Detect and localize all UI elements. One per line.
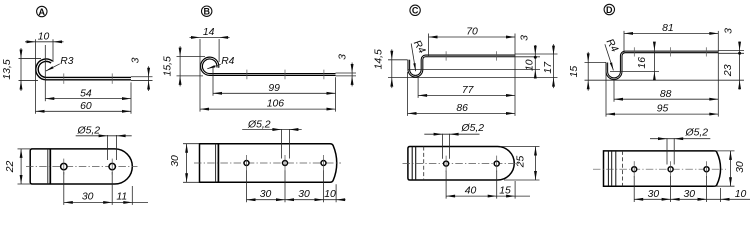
- svg-text:77: 77: [462, 85, 475, 96]
- dimension 106 (B): [200, 108, 336, 110]
- hole C2: [494, 161, 499, 166]
- svg-text:Ø5,2: Ø5,2: [461, 123, 485, 134]
- extension lines B bottom view dims: [246, 171, 248, 203]
- dimension Ø5,2 (C): [424, 133, 479, 135]
- dimension 88 (D): [614, 98, 718, 100]
- hole B3: [321, 161, 326, 166]
- dimension 14 (B hook width): [190, 36, 230, 38]
- svg-text:99: 99: [268, 83, 280, 94]
- part D centerline: [593, 168, 726, 170]
- part C bottom view - plate with rounded right end: [408, 147, 514, 181]
- radius label R3 with leader: [46, 64, 60, 71]
- svg-text:86: 86: [456, 103, 468, 114]
- dimension 30 (D width): [730, 151, 732, 186]
- part A centerline: [26, 166, 138, 168]
- dimension 11 (A bottom): [123, 201, 132, 204]
- extension lines C bottom view dims: [445, 171, 447, 199]
- variant label A (circled): [37, 6, 47, 16]
- part A bottom view - plate with rounded right end: [30, 149, 132, 184]
- svg-text:B: B: [203, 7, 210, 17]
- svg-text:70: 70: [466, 27, 478, 38]
- dimension 30 (A bottom): [64, 201, 148, 203]
- svg-text:15: 15: [499, 186, 511, 197]
- svg-text:17: 17: [543, 61, 554, 74]
- hole B1: [244, 161, 249, 166]
- svg-text:30: 30: [298, 189, 310, 200]
- svg-text:30: 30: [648, 189, 660, 200]
- part C side view - offset strip with U-hook R4: [409, 56, 515, 76]
- svg-text:15,5: 15,5: [162, 56, 173, 76]
- svg-text:A: A: [39, 7, 46, 17]
- svg-text:C: C: [412, 6, 419, 16]
- svg-text:3: 3: [131, 57, 142, 63]
- radius label R4 with leader (D): [605, 44, 614, 70]
- dimension 40 15 (C bottom): [446, 195, 530, 197]
- svg-text:Ø5,2: Ø5,2: [77, 126, 101, 137]
- extension lines A side view: [35, 39, 37, 114]
- dimension 14,5 (C): [391, 49, 393, 88]
- svg-text:3: 3: [337, 54, 348, 60]
- svg-text:54: 54: [80, 88, 92, 99]
- part C dashed bend line: [423, 147, 425, 181]
- dimension 3 (A thickness): [148, 66, 150, 91]
- part B side view - long strip with curled hook R4: [201, 58, 335, 74]
- dimension 30 30 10 (D bottom): [634, 198, 750, 200]
- svg-text:81: 81: [662, 23, 674, 34]
- svg-text:30: 30: [684, 189, 696, 200]
- part D side view hole center ticks: [633, 47, 635, 56]
- part D bend lines at left end: [607, 151, 609, 186]
- part A side view hole center ticks: [63, 73, 65, 83]
- part D bottom view - long plate: [604, 151, 721, 186]
- dimension Ø5,2 (B): [242, 129, 302, 131]
- radius label R4 with leader (B): [207, 64, 221, 69]
- part A bend lines at left end: [47, 149, 49, 184]
- svg-text:60: 60: [80, 101, 92, 112]
- svg-text:30: 30: [170, 155, 181, 167]
- dimension 3 (D thickness) with shared dot: [739, 42, 741, 90]
- hole D2: [668, 167, 673, 172]
- svg-text:10: 10: [735, 189, 747, 200]
- part B centerline: [194, 162, 341, 164]
- dimension 13,5 (A height): [20, 48, 22, 91]
- hole D1: [632, 167, 637, 172]
- dimension 86 (C): [408, 112, 516, 114]
- hole A2: [109, 163, 115, 169]
- dimension 15 (D): [587, 52, 589, 91]
- svg-text:3: 3: [724, 28, 735, 34]
- svg-text:30: 30: [260, 189, 272, 200]
- dimension 15,5 (B height): [179, 46, 181, 86]
- svg-text:3: 3: [519, 35, 530, 41]
- svg-text:Ø5,2: Ø5,2: [247, 119, 271, 130]
- variant label D (circled): [604, 4, 614, 14]
- hole C1: [444, 161, 449, 166]
- extension lines D bottom view dims: [633, 176, 635, 202]
- svg-text:106: 106: [267, 99, 285, 110]
- dimension 22 (A width): [20, 149, 22, 184]
- svg-text:R4: R4: [221, 56, 234, 67]
- part D dashed bend line: [622, 151, 624, 186]
- svg-text:14: 14: [203, 27, 215, 38]
- dimension 99 (B): [213, 92, 336, 94]
- dimension 10 (C hook opening): [534, 70, 537, 79]
- extension lines D side view: [623, 31, 625, 53]
- svg-text:10: 10: [324, 189, 336, 200]
- variant label C (circled): [410, 5, 420, 15]
- hole D3: [704, 167, 709, 172]
- svg-text:95: 95: [657, 104, 669, 115]
- dimension Ø5,2 (A): [76, 135, 132, 137]
- svg-text:88: 88: [660, 89, 672, 100]
- dimension 81 (D): [624, 32, 718, 34]
- svg-text:R3: R3: [60, 56, 73, 67]
- dimension 16 (D hook opening): [653, 43, 655, 81]
- dimension 3 (B thickness): [351, 63, 353, 87]
- dimension 10 (A hook width): [25, 41, 64, 43]
- extension lines A bottom view dims: [63, 172, 65, 205]
- extension lines B side view: [199, 39, 201, 112]
- dimension Ø5,2 (D): [650, 138, 710, 140]
- svg-text:23: 23: [723, 64, 734, 77]
- svg-text:D: D: [606, 5, 613, 15]
- svg-text:14,5: 14,5: [374, 49, 385, 69]
- hole B2: [283, 161, 288, 166]
- dimension 30 (B width): [186, 144, 188, 183]
- svg-text:10: 10: [525, 59, 536, 71]
- part A side view - hooked flat strip, hook R3 on left: [37, 60, 131, 78]
- dimension 60 (A): [36, 110, 132, 112]
- radius label R4 with leader (C): [411, 44, 416, 72]
- part C bend lines at left end: [411, 147, 413, 181]
- dimension 95 (D): [606, 113, 718, 115]
- dimension 54 (A): [45, 98, 131, 100]
- dimension 77 (C): [418, 94, 515, 96]
- svg-text:10: 10: [38, 31, 50, 42]
- svg-text:30: 30: [735, 161, 746, 173]
- dimension 23 (D): [738, 80, 741, 89]
- dimension 3 (C thickness) with shared dot: [534, 45, 536, 79]
- dimension 17 (C total height): [553, 44, 555, 88]
- extension lines C side view: [428, 34, 430, 57]
- svg-text:Ø5,2: Ø5,2: [685, 127, 709, 138]
- svg-text:13,5: 13,5: [2, 59, 13, 79]
- part C centerline: [403, 163, 520, 165]
- svg-text:40: 40: [465, 186, 477, 197]
- variant label B (circled): [202, 6, 212, 16]
- svg-text:22: 22: [5, 161, 16, 174]
- hole A1: [61, 163, 67, 169]
- svg-text:11: 11: [116, 192, 127, 203]
- part B bottom view - long plate: [200, 144, 337, 183]
- part D side view - offset strip with U-hook R4: [607, 52, 718, 79]
- part B bend lines at left end: [215, 144, 217, 183]
- svg-text:16: 16: [637, 57, 648, 69]
- part B side view hole center ticks: [246, 70, 248, 80]
- svg-text:15: 15: [569, 66, 580, 78]
- part C side view hole center ticks: [445, 51, 447, 60]
- dimension 25 (C width): [535, 147, 537, 181]
- dimension 30 30 10 (B bottom): [247, 199, 346, 201]
- svg-text:25: 25: [516, 156, 527, 169]
- dimension 70 (C): [429, 36, 516, 38]
- svg-text:30: 30: [82, 192, 94, 203]
